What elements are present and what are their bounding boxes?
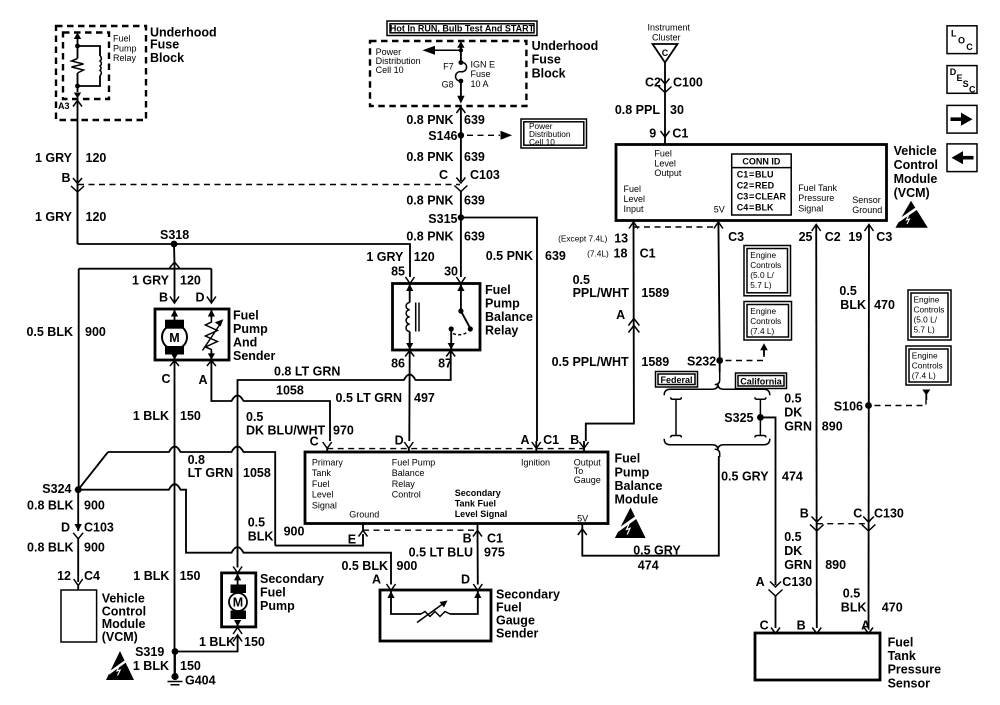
svg-text:(7.4L): (7.4L) [587,249,609,259]
svg-text:639: 639 [464,194,485,208]
svg-text:California: California [740,376,783,386]
svg-text:Hot In RUN, Bulb Test And STAR: Hot In RUN, Bulb Test And START [390,24,535,34]
svg-text:Output: Output [654,168,682,178]
svg-text:(5.0 L/: (5.0 L/ [750,270,774,280]
svg-text:Pump: Pump [233,322,268,336]
svg-text:IGN E: IGN E [471,60,496,70]
svg-text:Sender: Sender [233,349,276,363]
svg-text:Fuel: Fuel [654,149,672,159]
svg-text:900: 900 [84,541,105,555]
svg-text:9: 9 [649,127,656,141]
svg-text:Cell 10: Cell 10 [529,137,555,147]
svg-text:G404: G404 [185,674,216,688]
svg-text:(7.4 L): (7.4 L) [750,326,774,336]
svg-text:(VCM): (VCM) [894,186,930,200]
svg-text:(5.0 L/: (5.0 L/ [914,314,938,324]
svg-text:C: C [161,372,170,386]
svg-text:Sensor: Sensor [888,676,931,690]
svg-text:A3: A3 [58,101,70,111]
svg-text:0.5 GRY: 0.5 GRY [633,544,681,558]
svg-text:Fuse: Fuse [150,38,179,52]
svg-text:Ground: Ground [852,205,882,215]
svg-text:C103: C103 [470,168,500,182]
svg-text:Controls: Controls [750,316,781,326]
svg-text:5V: 5V [577,514,588,524]
svg-text:S318: S318 [160,228,189,242]
svg-text:C: C [760,619,769,633]
svg-text:Engine: Engine [912,351,938,361]
svg-text:A: A [198,373,207,387]
svg-text:A: A [861,619,870,633]
svg-text:Cluster: Cluster [652,33,681,43]
svg-text:Block: Block [532,66,566,80]
svg-text:5V: 5V [714,205,725,215]
svg-text:474: 474 [782,469,803,483]
svg-text:Level Signal: Level Signal [455,509,508,519]
svg-text:Secondary: Secondary [455,488,501,498]
svg-text:BLK: BLK [840,298,866,312]
svg-text:Fuel: Fuel [260,586,286,600]
svg-text:474: 474 [638,559,659,573]
svg-text:1058: 1058 [276,384,304,398]
svg-text:Instrument: Instrument [648,23,691,33]
svg-text:970: 970 [333,424,354,438]
svg-text:C130: C130 [874,507,904,521]
svg-text:975: 975 [484,546,505,560]
svg-text:120: 120 [86,210,107,224]
svg-text:Pressure: Pressure [798,193,834,203]
svg-text:Signal: Signal [798,203,823,213]
svg-text:890: 890 [825,558,846,572]
svg-text:10 A: 10 A [471,79,489,89]
svg-text:Tank Fuel: Tank Fuel [455,498,496,508]
svg-text:1058: 1058 [243,466,271,480]
svg-text:0.8 PNK: 0.8 PNK [406,113,453,127]
svg-text:Level: Level [654,158,676,168]
svg-text:Relay: Relay [113,53,137,63]
svg-text:DK: DK [784,405,802,419]
svg-text:0.8 LT GRN: 0.8 LT GRN [274,365,340,379]
svg-text:F7: F7 [443,62,454,72]
svg-text:Control: Control [392,490,421,500]
svg-text:639: 639 [545,249,566,263]
svg-text:497: 497 [414,391,435,405]
svg-text:D: D [461,573,470,587]
svg-text:1 BLK: 1 BLK [133,659,169,673]
svg-text:O: O [958,36,965,46]
svg-text:Fuse: Fuse [471,69,491,79]
svg-text:Fuel: Fuel [888,635,914,649]
svg-text:Ground: Ground [349,509,379,519]
svg-text:S106: S106 [834,400,863,414]
svg-text:Block: Block [150,51,184,65]
svg-text:A: A [616,308,625,322]
svg-text:GRN: GRN [784,558,812,572]
svg-text:B: B [463,532,472,546]
svg-text:A: A [756,575,765,589]
svg-text:0.8 PPL: 0.8 PPL [615,103,661,117]
svg-text:E: E [348,533,356,547]
svg-text:C1: C1 [640,247,656,261]
svg-text:Pump: Pump [260,599,295,613]
svg-text:And: And [233,336,257,350]
svg-text:Underhood: Underhood [532,39,599,53]
svg-text:C2 = RED: C2 = RED [737,180,775,190]
svg-text:Fuel: Fuel [233,309,259,323]
svg-text:0.5: 0.5 [784,391,801,405]
svg-text:S315: S315 [428,212,457,226]
svg-text:Pressure: Pressure [888,663,942,677]
svg-text:150: 150 [244,635,265,649]
svg-text:0.5: 0.5 [248,516,265,530]
svg-text:Control: Control [894,158,938,172]
svg-text:86: 86 [391,357,405,371]
svg-text:(7.4 L): (7.4 L) [912,371,936,381]
svg-text:Fuel: Fuel [496,601,522,615]
svg-text:Module: Module [615,493,659,507]
svg-text:Tank: Tank [312,468,332,478]
svg-text:G8: G8 [442,80,454,90]
svg-text:470: 470 [882,601,903,615]
svg-text:S324: S324 [42,482,71,496]
svg-text:Balance: Balance [392,468,425,478]
svg-text:C103: C103 [84,521,114,535]
svg-text:S146: S146 [428,129,457,143]
svg-text:150: 150 [180,409,201,423]
svg-text:0.5: 0.5 [839,284,856,298]
svg-text:890: 890 [822,420,843,434]
svg-text:900: 900 [397,559,418,573]
svg-text:C2: C2 [645,76,661,90]
svg-text:0.5: 0.5 [573,273,590,287]
svg-text:5.7 L): 5.7 L) [914,324,935,334]
svg-text:Pump: Pump [615,466,650,480]
svg-text:0.5 PPL/WHT: 0.5 PPL/WHT [552,355,629,369]
svg-text:DK: DK [784,544,802,558]
svg-text:30: 30 [444,265,458,279]
svg-text:0.8 PNK: 0.8 PNK [406,150,453,164]
svg-text:C: C [969,84,976,94]
svg-text:B: B [61,171,70,185]
svg-text:150: 150 [180,659,201,673]
svg-text:BLK: BLK [248,530,274,544]
svg-text:D: D [61,521,70,535]
svg-text:Level: Level [312,490,334,500]
svg-text:Sensor: Sensor [852,195,881,205]
svg-text:Vehicle: Vehicle [894,144,937,158]
svg-text:19: 19 [848,230,862,244]
svg-text:(VCM): (VCM) [102,630,138,644]
svg-text:Primary: Primary [312,457,343,467]
svg-text:D: D [195,291,204,305]
svg-text:C3 = CLEAR: C3 = CLEAR [737,192,787,202]
svg-text:Fuel: Fuel [113,34,131,44]
svg-text:Controls: Controls [914,304,945,314]
svg-text:Cell 10: Cell 10 [376,65,404,75]
svg-text:S: S [963,79,969,89]
svg-text:Pump: Pump [485,297,520,311]
svg-text:GRN: GRN [784,420,812,434]
svg-text:0.8: 0.8 [188,453,205,467]
svg-text:0.5: 0.5 [784,530,801,544]
svg-text:12: 12 [57,569,71,583]
svg-text:Fuse: Fuse [532,52,561,66]
svg-text:0.5 GRY: 0.5 GRY [721,469,769,483]
svg-text:0.5 BLK: 0.5 BLK [26,325,73,339]
svg-text:0.8 PNK: 0.8 PNK [406,230,453,244]
svg-text:PPL/WHT: PPL/WHT [573,286,630,300]
svg-text:C2: C2 [825,230,841,244]
svg-text:25: 25 [799,230,813,244]
svg-text:C4 = BLK: C4 = BLK [737,203,774,213]
svg-text:1 BLK: 1 BLK [133,409,169,423]
svg-text:1 GRY: 1 GRY [35,210,73,224]
svg-text:1 GRY: 1 GRY [366,250,404,264]
svg-text:Signal: Signal [312,501,337,511]
svg-text:Tank: Tank [888,649,916,663]
svg-text:Fuel: Fuel [485,283,511,297]
svg-text:BLK: BLK [841,601,867,615]
svg-text:900: 900 [84,498,105,512]
svg-text:LT GRN: LT GRN [188,466,234,480]
svg-text:C: C [439,168,448,182]
svg-text:5.7 L): 5.7 L) [750,280,771,290]
svg-text:0.8 BLK: 0.8 BLK [27,498,74,512]
svg-text:Secondary: Secondary [260,572,324,586]
svg-text:C: C [662,48,669,58]
svg-text:Balance: Balance [615,479,663,493]
svg-text:B: B [797,619,806,633]
svg-text:A: A [520,433,529,447]
svg-text:85: 85 [391,265,405,279]
svg-text:120: 120 [414,250,435,264]
svg-text:C100: C100 [673,76,703,90]
svg-text:Federal: Federal [660,375,692,385]
svg-text:639: 639 [464,113,485,127]
svg-text:0.8 BLK: 0.8 BLK [27,541,74,555]
svg-text:1 GRY: 1 GRY [35,151,73,165]
svg-text:1 BLK: 1 BLK [133,569,169,583]
svg-text:900: 900 [85,325,106,339]
svg-text:Secondary: Secondary [496,588,560,602]
svg-text:639: 639 [464,150,485,164]
svg-text:A: A [372,573,381,587]
svg-text:L: L [951,29,957,39]
svg-text:Balance: Balance [485,310,533,324]
svg-text:C: C [310,434,319,448]
svg-text:Sender: Sender [496,627,539,641]
svg-text:D: D [395,434,404,448]
svg-text:C: C [966,42,973,52]
svg-text:0.5 PNK: 0.5 PNK [486,249,533,263]
svg-text:C3: C3 [728,230,744,244]
svg-text:120: 120 [180,274,201,288]
svg-text:Controls: Controls [750,260,781,270]
svg-text:C4: C4 [84,569,100,583]
svg-text:0.5: 0.5 [246,410,263,424]
svg-text:Engine: Engine [750,306,776,316]
svg-text:Gauge: Gauge [574,475,601,485]
svg-text:1 GRY: 1 GRY [132,274,170,288]
svg-text:Fuel: Fuel [624,184,642,194]
svg-text:S325: S325 [724,411,753,425]
svg-text:Engine: Engine [750,250,776,260]
svg-text:B: B [159,291,168,305]
svg-text:1589: 1589 [641,355,669,369]
svg-text:Engine: Engine [914,294,940,304]
svg-text:0.5 LT GRN: 0.5 LT GRN [336,391,402,405]
svg-text:1589: 1589 [641,286,669,300]
svg-text:0.5 BLK: 0.5 BLK [341,559,388,573]
svg-text:S232: S232 [687,355,716,369]
svg-text:18: 18 [614,247,628,261]
svg-text:Pump: Pump [113,44,137,54]
svg-text:Relay: Relay [392,479,416,489]
svg-text:S319: S319 [135,645,164,659]
svg-text:M: M [233,596,243,610]
svg-text:1 BLK: 1 BLK [199,635,235,649]
svg-text:(Except 7.4L): (Except 7.4L) [558,234,608,244]
svg-text:Relay: Relay [485,324,518,338]
svg-text:M: M [169,331,179,345]
svg-text:Fuel: Fuel [615,451,641,465]
svg-text:900: 900 [284,525,305,539]
svg-text:0.5: 0.5 [843,587,860,601]
svg-text:639: 639 [464,230,485,244]
svg-text:0.5 LT BLU: 0.5 LT BLU [409,546,473,560]
svg-text:CONN ID: CONN ID [742,157,781,167]
svg-text:Fuel Pump: Fuel Pump [392,457,436,467]
svg-text:Level: Level [624,194,646,204]
svg-text:470: 470 [874,298,895,312]
svg-text:150: 150 [180,569,201,583]
svg-text:C1: C1 [487,532,503,546]
svg-text:C1: C1 [672,127,688,141]
svg-text:B: B [800,507,809,521]
svg-text:Controls: Controls [912,361,943,371]
svg-text:Ignition: Ignition [521,457,550,467]
svg-text:C1 = BLU: C1 = BLU [737,169,774,179]
svg-text:120: 120 [86,151,107,165]
svg-text:B: B [570,433,579,447]
svg-text:0.8 PNK: 0.8 PNK [406,194,453,208]
svg-text:Input: Input [624,204,645,214]
svg-text:C1: C1 [543,433,559,447]
svg-text:C3: C3 [876,230,892,244]
svg-text:13: 13 [614,231,628,245]
svg-text:C: C [853,507,862,521]
svg-text:30: 30 [670,103,684,117]
svg-text:C130: C130 [782,575,812,589]
svg-text:Fuel: Fuel [312,479,330,489]
svg-text:Gauge: Gauge [496,614,535,628]
svg-text:Fuel Tank: Fuel Tank [798,183,837,193]
svg-text:Module: Module [894,172,938,186]
